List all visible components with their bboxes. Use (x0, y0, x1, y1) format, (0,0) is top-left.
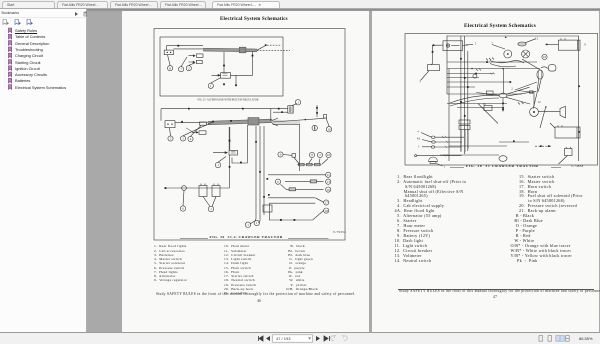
svg-text:10: 10 (543, 55, 547, 59)
svg-text:1: 1 (256, 221, 258, 225)
svg-text:4: 4 (417, 131, 419, 134)
svg-text:17: 17 (325, 201, 329, 205)
svg-text:16: 16 (483, 102, 487, 106)
svg-text:11: 11 (327, 173, 330, 177)
svg-text:6: 6 (182, 207, 184, 211)
svg-text:9: 9 (545, 105, 547, 109)
svg-text:6: 6 (314, 126, 316, 130)
svg-text:1: 1 (297, 101, 299, 105)
svg-text:1: 1 (182, 137, 184, 141)
svg-text:10: 10 (327, 128, 331, 132)
svg-text:1: 1 (247, 223, 249, 227)
svg-text:13: 13 (535, 37, 539, 41)
svg-text:1: 1 (217, 163, 219, 167)
svg-text:5: 5 (475, 42, 477, 46)
svg-text:2: 2 (319, 153, 321, 157)
svg-text:5: 5 (170, 137, 172, 141)
svg-text:18: 18 (325, 209, 329, 213)
svg-text:10: 10 (327, 153, 331, 157)
svg-text:2: 2 (188, 66, 190, 70)
svg-text:1: 1 (210, 84, 212, 88)
svg-text:7: 7 (180, 67, 182, 71)
svg-text:3: 3 (418, 146, 420, 149)
svg-text:16: 16 (327, 188, 331, 192)
svg-text:8: 8 (169, 66, 171, 70)
svg-text:8: 8 (311, 153, 313, 157)
svg-text:13: 13 (327, 180, 331, 184)
svg-text:4A: 4A (417, 138, 420, 141)
svg-text:6: 6 (280, 153, 282, 157)
svg-text:12: 12 (537, 100, 541, 104)
svg-text:4: 4 (190, 137, 192, 141)
svg-text:9: 9 (584, 43, 586, 47)
svg-text:1: 1 (210, 207, 212, 211)
svg-text:FIG. 25 ALTERNATOR WITH BUILT: FIG. 25 ALTERNATOR WITH BUILT-IN REGULAT… (198, 98, 259, 101)
svg-text:2: 2 (511, 87, 513, 91)
svg-text:6: 6 (277, 180, 279, 184)
